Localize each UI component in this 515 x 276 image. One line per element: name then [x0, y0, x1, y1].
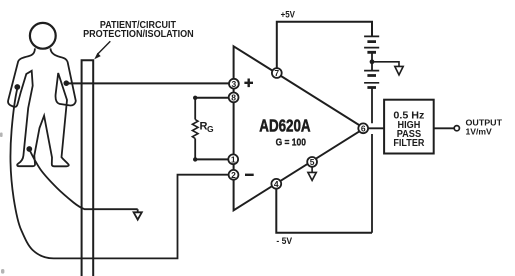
svg-text:2: 2: [231, 170, 236, 180]
svg-text:G = 100: G = 100: [276, 138, 307, 149]
svg-text:FILTER: FILTER: [393, 138, 424, 149]
svg-text:G: G: [207, 124, 214, 134]
svg-text:4: 4: [274, 179, 279, 189]
svg-text:AD620A: AD620A: [259, 116, 311, 136]
svg-text:7: 7: [274, 68, 279, 78]
svg-text:+5V: +5V: [281, 10, 295, 20]
svg-text:1: 1: [231, 154, 236, 164]
svg-text:- 5V: - 5V: [276, 236, 292, 246]
svg-text:1V/mV: 1V/mV: [466, 126, 493, 136]
svg-text:8: 8: [231, 93, 236, 103]
svg-text:6: 6: [361, 123, 366, 133]
svg-text:5: 5: [310, 157, 315, 167]
svg-text:3: 3: [232, 79, 237, 89]
svg-text:PROTECTION/ISOLATION: PROTECTION/ISOLATION: [83, 29, 194, 40]
